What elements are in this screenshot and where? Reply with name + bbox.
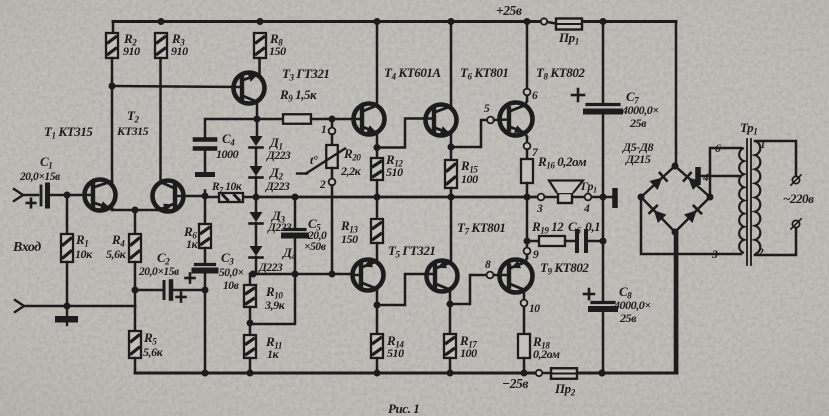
- node R2col junction: [109, 83, 116, 90]
- label R1: [75, 232, 93, 261]
- node emitter junction R4: [132, 207, 139, 214]
- wire Ccol top: [602, 22, 605, 104]
- wire R4 drop: [134, 210, 137, 234]
- diode D5: [649, 172, 667, 190]
- label plus C7: [572, 89, 584, 101]
- label plus C1: [27, 199, 36, 208]
- svg-text:0,2ом: 0,2ом: [533, 347, 560, 361]
- wire R11 to rail: [249, 358, 252, 373]
- svg-text:R19 12: R19 12: [531, 219, 564, 236]
- wire R18 to rail: [523, 358, 526, 373]
- capacitor C6: [577, 231, 586, 251]
- svg-text:510: 510: [386, 165, 403, 179]
- capacitor C1: [41, 185, 48, 206]
- connector bar C4: [195, 172, 215, 177]
- svg-text:50,0×: 50,0×: [219, 267, 243, 279]
- wire primary top: [755, 141, 796, 176]
- label R3: [171, 31, 188, 58]
- wire T4 emitter: [376, 133, 379, 159]
- label T5: [388, 243, 435, 260]
- svg-text:Д215: Д215: [625, 152, 651, 166]
- wire T8 collector: [525, 96, 527, 106]
- label C8: [613, 284, 651, 325]
- wire R6 to C3: [204, 248, 207, 264]
- wire node5 to T8: [494, 118, 509, 121]
- diode D1: [250, 136, 263, 148]
- capacitor C5: [284, 230, 306, 236]
- wire bridge left down: [641, 197, 741, 254]
- terminal lower 220V: [791, 219, 801, 229]
- svg-text:4: 4: [583, 203, 590, 215]
- diode D7: [648, 205, 666, 223]
- resistor R12: [371, 158, 383, 180]
- wire R1 drop: [66, 195, 69, 234]
- svg-text:910: 910: [171, 44, 188, 58]
- resistor R10: [244, 285, 256, 307]
- node top-rail junction R3: [158, 18, 165, 25]
- svg-text:5,6к: 5,6к: [143, 345, 164, 359]
- wire R3 to T2: [159, 58, 162, 183]
- wire R14 to rail: [376, 358, 379, 373]
- resistor R13: [371, 219, 383, 243]
- node bottom junction R11: [247, 370, 254, 377]
- wire bridge bottom down: [674, 232, 677, 373]
- svg-text:t°: t°: [310, 153, 318, 167]
- label R10: [264, 284, 286, 312]
- wire T3 collector down: [256, 102, 259, 136]
- wire to R9: [257, 118, 283, 121]
- node 2: [319, 179, 335, 191]
- resistor R7: [219, 193, 243, 202]
- node top-rail junction T4: [374, 18, 381, 25]
- node T5 emitter junction: [374, 302, 381, 309]
- wire D4 to bias node: [250, 257, 256, 274]
- transistor T1: [85, 180, 116, 211]
- svg-text:Т1 КТ315: Т1 КТ315: [44, 124, 93, 141]
- svg-text:8: 8: [485, 259, 491, 271]
- node bridge bottom: [672, 229, 679, 236]
- label D4: [258, 245, 296, 274]
- svg-text:Вход: Вход: [12, 240, 41, 255]
- label Tr1: [740, 120, 757, 137]
- svg-text:Т3 ГТ321: Т3 ГТ321: [282, 66, 329, 83]
- label Gr1: [580, 179, 597, 195]
- label D3: [267, 208, 292, 234]
- wire mid output rail left: [175, 196, 219, 197]
- node top-rail junction T6: [448, 18, 455, 25]
- node 4: [583, 194, 591, 215]
- label D1: [266, 135, 291, 162]
- wire T6 to T8 base: [448, 120, 488, 151]
- svg-text:Т5 ГТ321: Т5 ГТ321: [388, 243, 435, 260]
- node 1: [321, 124, 335, 136]
- wire T7 to R17: [449, 304, 452, 334]
- wire midtap 4: [701, 175, 741, 178]
- resistor R5: [129, 331, 141, 358]
- wire R16 to rail: [526, 183, 529, 197]
- label R8: [269, 31, 286, 58]
- connector bar output: [612, 188, 618, 208]
- wire T6 collector up: [450, 22, 453, 107]
- wire R4col to R5: [134, 306, 137, 331]
- label R13: [340, 218, 358, 246]
- svg-text:Д223: Д223: [265, 181, 290, 193]
- svg-text:Д223: Д223: [266, 150, 291, 162]
- wire D2-node: [255, 177, 258, 197]
- node mid rail junction R16: [524, 194, 531, 201]
- wire R2col top: [112, 22, 115, 34]
- bridge frame: [641, 166, 710, 232]
- wire R4 to C2 node: [134, 262, 137, 306]
- svg-text:C6 0,1: C6 0,1: [568, 219, 600, 236]
- node mid rail junction C4col: [202, 193, 209, 200]
- resistor R18: [518, 334, 530, 358]
- transistor T9: [500, 260, 533, 293]
- node 9: [524, 248, 539, 261]
- label -25V: [502, 376, 528, 391]
- wire C3 to rail: [204, 271, 207, 373]
- node bottom junction R14: [374, 370, 381, 377]
- svg-text:5,6к: 5,6к: [106, 247, 127, 261]
- wire T5 base: [353, 274, 361, 277]
- svg-text:4000,0×: 4000,0×: [621, 103, 659, 117]
- label T7: [457, 220, 505, 237]
- wire node8 to T9 base: [494, 274, 509, 277]
- node mid rail junction diode chain: [253, 194, 260, 201]
- transistor T6: [426, 105, 457, 136]
- transformer primary winding: [755, 141, 760, 254]
- capacitor C4: [195, 140, 215, 149]
- label t: [310, 153, 318, 167]
- svg-text:510: 510: [387, 346, 404, 360]
- label R17: [459, 333, 477, 360]
- resistor R19: [539, 236, 565, 246]
- wire C4 stem: [204, 151, 207, 172]
- svg-text:4000,0×: 4000,0×: [613, 298, 651, 312]
- node input-R1: [64, 192, 71, 199]
- label plus C8: [584, 289, 594, 299]
- svg-text:2: 2: [319, 179, 326, 191]
- label 220V: [783, 191, 814, 206]
- svg-text:Рис. 1: Рис. 1: [388, 401, 419, 416]
- label R15: [460, 158, 478, 186]
- svg-text:Т8 КТ802: Т8 КТ802: [536, 65, 585, 82]
- diode D3: [250, 212, 263, 224]
- wire T8 emitter: [525, 133, 527, 143]
- wire T4 collector up: [376, 22, 379, 106]
- label R16: [537, 154, 587, 171]
- node mid rail junction R15: [448, 194, 455, 201]
- label T8: [536, 65, 585, 82]
- svg-text:×50в: ×50в: [304, 241, 326, 253]
- capacitor C8: [591, 303, 615, 310]
- svg-text:R16 0,2ом: R16 0,2ом: [537, 154, 587, 171]
- wire C4 stub: [204, 191, 207, 197]
- svg-text:100: 100: [460, 346, 477, 360]
- transistor T2: [153, 181, 184, 212]
- node 10: [521, 300, 541, 315]
- label Pr2: [554, 381, 576, 398]
- label R2: [123, 31, 140, 58]
- wire T9 collector: [525, 255, 527, 263]
- svg-text:9: 9: [533, 249, 539, 261]
- label T1: [44, 124, 93, 141]
- label D5-D8: [622, 140, 654, 166]
- wire T9 emitter: [523, 290, 526, 300]
- wire top-rail to bridge: [675, 22, 678, 167]
- wire primary bottom: [755, 228, 796, 255]
- wire Ccol mid to C8: [602, 197, 605, 301]
- label winding 4: [702, 172, 709, 184]
- label plus C3: [186, 274, 195, 283]
- resistor R4: [129, 234, 141, 262]
- node bottom junction R18: [521, 370, 528, 377]
- wire R15 to rail: [450, 188, 453, 197]
- wire node7 to R16: [526, 150, 529, 160]
- resistor R8: [254, 33, 266, 58]
- resistor R20: [297, 145, 345, 174]
- wire node9 up: [526, 197, 529, 247]
- svg-text:2,2к: 2,2к: [340, 164, 362, 178]
- wire C5 bypass: [250, 274, 295, 324]
- svg-text:Д223: Д223: [258, 262, 283, 274]
- wire C8 to rail: [602, 309, 605, 373]
- wire R8 to T3: [258, 58, 261, 75]
- wire R2 to T1 collector: [111, 58, 114, 182]
- label R6: [183, 224, 199, 251]
- node 6: [524, 89, 538, 102]
- label D2: [265, 165, 290, 193]
- transistor T3: [234, 73, 265, 104]
- node 8: [485, 259, 493, 278]
- node gnd junction: [64, 303, 71, 310]
- transistor T8: [500, 103, 533, 136]
- wire T6 emitter: [450, 134, 453, 161]
- diode D6: [683, 172, 701, 190]
- svg-text:R9 1,5к: R9 1,5к: [279, 87, 317, 104]
- node bridge left: [638, 194, 645, 201]
- label Vhod: [12, 240, 41, 255]
- wire +25V top rail: [113, 20, 676, 23]
- wire R6 top: [204, 197, 207, 224]
- label T3: [282, 66, 329, 83]
- svg-text:10: 10: [529, 303, 540, 315]
- svg-text:100: 100: [461, 172, 478, 186]
- label winding 3: [711, 249, 718, 261]
- wire R19 to C6: [565, 240, 575, 243]
- wire D3-D4: [255, 223, 258, 246]
- svg-text:4: 4: [702, 172, 709, 184]
- wire C5 to bias wire: [294, 236, 297, 274]
- wire base T3 horiz: [112, 86, 242, 87]
- wire T1 emitter run: [112, 209, 160, 211]
- wire D1-D2: [255, 148, 258, 165]
- svg-text:2: 2: [757, 247, 764, 259]
- wire mid rail speaker right: [545, 196, 612, 199]
- diode D2: [250, 166, 263, 178]
- label R4: [106, 232, 127, 261]
- label R11: [265, 334, 282, 361]
- svg-text:3,9к: 3,9к: [264, 298, 286, 312]
- ground: [55, 306, 78, 325]
- node T7 emitter junction: [447, 301, 454, 308]
- wire R20 top: [331, 119, 334, 128]
- capacitor C7: [586, 105, 620, 112]
- label C6: [568, 219, 600, 236]
- wire bias to R10: [249, 274, 252, 285]
- label winding 6: [715, 143, 721, 155]
- wire R20 lead bot: [331, 168, 334, 179]
- label R12: [385, 152, 403, 179]
- wire R9 to T4 base: [311, 118, 362, 121]
- resistor R17: [444, 334, 456, 358]
- svg-text:+25в: +25в: [496, 3, 522, 18]
- wire node10 to R18: [523, 307, 526, 334]
- transistor T4: [354, 104, 385, 135]
- label C7: [621, 89, 659, 130]
- label plus C2: [177, 293, 186, 302]
- node top-rail junction R8: [257, 18, 264, 25]
- svg-text:20,0×15в: 20,0×15в: [19, 171, 60, 183]
- label +25V: [496, 3, 522, 18]
- wire R1 to gnd node: [66, 262, 69, 305]
- diode D8: [684, 205, 702, 223]
- node R10-R11 junction: [247, 320, 254, 327]
- wire R17 to rail: [449, 358, 452, 373]
- wire R12 to rail: [376, 180, 379, 197]
- label winding 2: [757, 247, 764, 259]
- input terminal upper: [14, 189, 38, 201]
- label T2: [116, 108, 149, 138]
- fuse Pr2: [536, 368, 577, 379]
- node C6 junction: [600, 238, 607, 245]
- capacitor C2: [135, 282, 205, 299]
- diode D4: [250, 246, 263, 258]
- node bias junction: [250, 271, 257, 278]
- speaker Gr1: [549, 181, 583, 204]
- node zobel junction: [524, 238, 531, 245]
- label R14: [386, 333, 404, 360]
- label T6: [460, 65, 508, 82]
- label C3: [219, 250, 243, 292]
- svg-text:910: 910: [123, 44, 140, 58]
- resistor R16: [521, 159, 533, 183]
- resistor R15: [445, 160, 457, 188]
- svg-text:6: 6: [715, 143, 721, 155]
- transistor T5: [353, 260, 384, 291]
- label R20: [340, 146, 362, 178]
- wire bias horizontal: [256, 273, 353, 276]
- wire R13 to T5: [376, 243, 379, 262]
- svg-text:150: 150: [341, 232, 358, 246]
- node T3 collector junction: [254, 116, 261, 123]
- svg-text:5: 5: [484, 103, 490, 115]
- label T4: [384, 65, 441, 82]
- wire node-D3: [255, 197, 258, 213]
- transformer Tr1 core: [747, 139, 751, 265]
- wire C5 top: [294, 197, 297, 228]
- wire R20 lead top: [331, 135, 334, 146]
- label R19: [531, 219, 564, 236]
- wire C1 to T1 base: [50, 194, 93, 197]
- fuse Pr1: [541, 18, 582, 29]
- svg-text:25в: 25в: [619, 311, 637, 325]
- svg-text:10к: 10к: [75, 247, 93, 261]
- wire T5 emitter down: [376, 289, 379, 306]
- wire mid rail R7-to-diode: [243, 196, 256, 199]
- wire zobel left: [527, 240, 539, 243]
- node bridge right: [707, 194, 714, 201]
- label C4: [216, 131, 239, 161]
- transformer secondary winding: [739, 148, 744, 253]
- node C2 right junction: [202, 287, 209, 294]
- node R9-R20 junction: [329, 116, 336, 123]
- capacitor C3: [195, 265, 216, 271]
- wire bridge right up: [710, 148, 741, 197]
- label T9: [540, 260, 589, 277]
- wire C6 to Ccol: [588, 240, 603, 243]
- svg-text:1000: 1000: [216, 147, 239, 161]
- node C2 left junction: [132, 287, 139, 294]
- svg-text:R7 10к: R7 10к: [211, 181, 243, 195]
- wire R10 to R11: [249, 307, 252, 335]
- node R20 bias junction: [329, 271, 336, 278]
- wire R5 to rail: [134, 358, 137, 373]
- wire C7 to mid: [602, 112, 605, 197]
- wire R20 to bias: [331, 186, 334, 275]
- svg-text:1: 1: [321, 124, 326, 136]
- wire T5 to T7 base: [377, 274, 435, 305]
- svg-text:3: 3: [536, 203, 543, 215]
- svg-text:150: 150: [269, 44, 286, 58]
- svg-text:Т7 КТ801: Т7 КТ801: [457, 220, 505, 237]
- resistor R11: [244, 335, 256, 358]
- svg-text:3: 3: [711, 249, 718, 261]
- wire node6 up: [526, 22, 529, 89]
- node bottom junction C8: [598, 369, 605, 376]
- label R7: [211, 181, 243, 195]
- svg-text:Т6 КТ801: Т6 КТ801: [460, 65, 508, 82]
- node C5 bias junction: [292, 271, 299, 278]
- wire T7 to T9 base: [450, 275, 486, 304]
- node bottom junction C3col: [202, 370, 209, 377]
- label Pr1: [558, 30, 579, 47]
- caption Ris.1: [388, 401, 419, 416]
- resistor R3: [155, 33, 167, 58]
- node 5: [484, 103, 494, 123]
- node bridge top: [672, 163, 679, 170]
- resistor R1: [61, 234, 73, 262]
- wire C4 top: [205, 119, 257, 137]
- wire T7 emitter down: [449, 290, 452, 305]
- svg-text:1к: 1к: [267, 347, 280, 361]
- node top-rail junction T8: [524, 18, 531, 25]
- resistor R2: [106, 33, 118, 58]
- connector bar midtap: [695, 167, 701, 185]
- svg-text:1к: 1к: [186, 237, 199, 251]
- wire rail to R13: [376, 197, 379, 219]
- label C5: [304, 216, 327, 253]
- label R9: [279, 87, 317, 104]
- wire bottom rail right: [577, 232, 677, 373]
- svg-text:Т9 КТ802: Т9 КТ802: [540, 260, 589, 277]
- svg-text:6: 6: [532, 90, 538, 102]
- resistor R14: [371, 334, 383, 358]
- svg-text:10в: 10в: [223, 280, 239, 292]
- wire T4 to T6 base: [374, 119, 435, 152]
- wire mid rail to speaker: [256, 196, 537, 199]
- node mid rail junction R12: [374, 194, 381, 201]
